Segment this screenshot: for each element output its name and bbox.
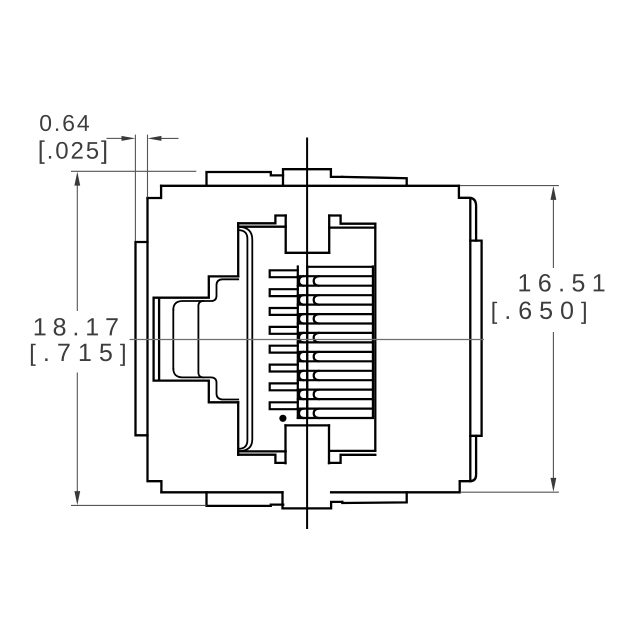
dimension text [.715] [31, 344, 125, 366]
inner box right wall [374, 224, 376, 451]
top tab T1 [207, 172, 284, 186]
dimension text [.025] [40, 140, 107, 163]
arrow 16.51 down [551, 478, 557, 492]
dim 18.17 dimension line [76, 184, 78, 493]
inner box left wall upper [237, 223, 239, 276]
slot right vertical [328, 216, 330, 253]
inner box top edge right [329, 216, 375, 224]
arrow 18.17 up [74, 172, 80, 186]
pin 1 indicator dot [279, 415, 286, 422]
dimension text 16.51 [519, 274, 604, 292]
top center tab [283, 169, 342, 186]
contact bar-end vertical [372, 267, 374, 418]
inner box bottom inner line left [238, 450, 286, 452]
dim 0.64 extension line left [134, 135, 136, 241]
arrow 0.64 right (points left) [148, 136, 162, 141]
cavity fillet line inner [239, 230, 247, 449]
latch window right edge [198, 301, 203, 377]
right body edge upper [459, 186, 476, 241]
dim 0.64 leader right [161, 137, 179, 139]
inner box bottom edge right [329, 455, 375, 463]
slot left vertical bottom [284, 425, 286, 463]
contact ladder left vertical [306, 267, 308, 418]
left lip line [148, 198, 162, 492]
inner box left wall lower [237, 402, 239, 454]
slot shelf bottom [286, 424, 330, 426]
inner box bottom inner line right [329, 450, 375, 452]
dimension text 0.64 [40, 115, 89, 131]
arrow 18.17 down [74, 491, 80, 505]
outer shell top edge [161, 185, 459, 187]
slot right vertical bottom [328, 425, 330, 463]
bottom edge [161, 491, 459, 493]
dim 16.51 dimension line [552, 199, 554, 480]
arrow 0.64 left (points right) [122, 136, 136, 141]
latch window left edge [172, 310, 174, 369]
dim 16.51 top extension [460, 185, 559, 187]
dim 16.51 bottom extension [460, 491, 559, 493]
dimension text [.650] [492, 301, 585, 323]
dim 18.17 top extension [71, 170, 196, 172]
right lip inner line [469, 199, 471, 482]
dim 18.17 bottom extension [71, 504, 207, 506]
short contact bars [270, 270, 298, 277]
left body edge upper [148, 186, 162, 198]
staircase inner offset line top [173, 279, 238, 310]
top tab T2 [342, 177, 406, 186]
slot shelf top [286, 252, 330, 254]
inner box bottom edge left [238, 455, 285, 463]
slot left vertical [285, 216, 287, 253]
staircase inner offset line bottom [173, 369, 238, 400]
right tab line [470, 241, 481, 436]
inner box top inner line right [329, 226, 375, 228]
right lip lower [460, 436, 476, 493]
cavity fillet line outer [239, 227, 252, 451]
vertical centerline [306, 138, 308, 530]
left tab line [136, 242, 148, 435]
bottom tab T2b [342, 492, 406, 503]
staircase deep face inner line [158, 299, 160, 380]
arrow 16.51 up [551, 186, 557, 200]
staircase outline [154, 276, 239, 402]
horizontal centerline [130, 339, 484, 341]
dimension text 18.17 [35, 318, 118, 336]
contact comb left vertical [297, 267, 299, 418]
bottom tab T1b [207, 492, 284, 506]
inner box top inner line left [238, 226, 286, 228]
inner box top edge left [238, 216, 286, 224]
contact ladder horizontal lines [307, 266, 373, 268]
dim 0.64 extension line right [147, 135, 149, 198]
dim 0.64 dimension line left [107, 137, 123, 139]
bottom center tab [283, 492, 343, 508]
contact nose arcs (wipe area) [314, 276, 319, 286]
